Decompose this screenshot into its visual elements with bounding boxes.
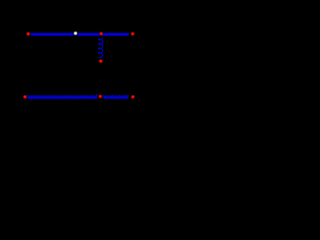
node B: top-middle red dot — [99, 32, 103, 36]
spring S3: bottom-right coil segment — [103, 95, 128, 99]
node C: top-right red dot — [131, 32, 135, 36]
node E: bottom-middle red dot — [98, 94, 102, 98]
node F: bottom-right red dot — [131, 95, 135, 99]
node D: bottom-left red dot — [23, 95, 27, 99]
node W: white bead on top rail — [73, 31, 79, 37]
node M1: hanging mass red dot — [99, 59, 103, 63]
node A: top-left red dot — [26, 32, 30, 36]
spring S2: bottom-left coil segment — [28, 95, 98, 99]
wire: top rail — [31, 33, 129, 36]
spring S1: vertical coil from node B down to mass M1 — [98, 37, 102, 57]
